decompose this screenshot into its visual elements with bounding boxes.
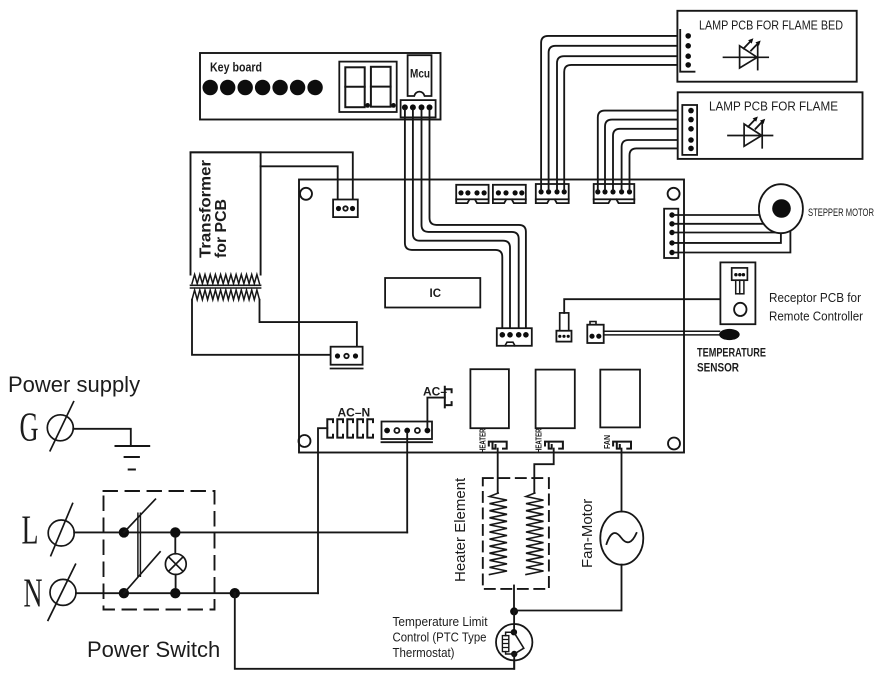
svg-text:Transformer: Transformer [198, 160, 215, 258]
wire junction to thermostat [513, 611, 515, 632]
svg-text:Temperature Limit: Temperature Limit [393, 614, 488, 629]
receptor plug housing [560, 313, 569, 331]
wire transformer primary to J2 pin1 [261, 166, 338, 200]
transformer core [191, 284, 261, 286]
wire thermostat to bottom [513, 654, 515, 669]
connector J7 (to flame lamp PCB) [594, 184, 635, 199]
connector J2 (PCB top-left, to transformer) [333, 200, 358, 218]
flame connector header [682, 105, 697, 155]
wire J7 pin1 to flame lamp [598, 111, 686, 190]
wire J7 pin4 to flame lamp [622, 140, 686, 190]
MCU U1 [408, 55, 432, 96]
LED D2 (flame) [728, 117, 773, 148]
wire J8 pin3 to stepper [674, 232, 776, 234]
power switch dashed enclosure [104, 491, 215, 610]
display digit 1 [345, 67, 364, 107]
wire J8 pin5 to stepper [674, 230, 790, 253]
lamp PCB for flame bed [677, 11, 856, 82]
wire transformer secondary left to J3 [192, 300, 332, 355]
wire lamp vertical [174, 538, 176, 588]
wire J8 pin1 to stepper [674, 214, 760, 216]
lamp PCB for flame [678, 92, 863, 159]
relay K2 (heater 2) [536, 370, 575, 429]
svg-text:LAMP PCB FOR FLAME BED: LAMP PCB FOR FLAME BED [699, 19, 843, 33]
AC-P terminal lug [445, 387, 452, 408]
7-segment display module [339, 62, 396, 112]
earth ground [116, 446, 150, 470]
wire N to AC-N [76, 592, 318, 594]
temperature sensor [719, 329, 740, 340]
stepper motor M1 [759, 184, 803, 233]
wire heater box to junction [513, 586, 515, 612]
svg-text:Key board: Key board [210, 60, 262, 75]
mounting hole top-left [300, 188, 312, 200]
svg-text:SENSOR: SENSOR [697, 363, 740, 375]
receptor lens [734, 303, 746, 316]
connector J6 (to flame-bed lamp PCB) [536, 184, 569, 199]
switch contact dots [119, 527, 129, 537]
wire transformer secondary right to J3 [260, 300, 357, 347]
svg-text:AC–N: AC–N [338, 406, 371, 420]
svg-text:TEMPERATURE: TEMPERATURE [697, 348, 766, 360]
mounting hole bottom-right [668, 438, 680, 450]
wire J7 pin2 to flame lamp [605, 120, 686, 190]
svg-text:N: N [24, 570, 43, 615]
heater2 terminal bracket [545, 442, 563, 449]
indicator lamp [165, 554, 186, 575]
wire J6 pin4 to flame-bed lamp [564, 65, 685, 190]
heater1 terminal bracket [489, 442, 507, 449]
MCU connector J1 [401, 100, 436, 117]
wire J7 pin3 to flame lamp [613, 129, 686, 190]
wire MCU pin2 to J5 pin2 [413, 110, 510, 330]
connector J8 (right edge, to stepper motor) [664, 209, 678, 258]
connector J4a (spare, top row) [456, 185, 488, 200]
heater element dashed box [483, 478, 549, 589]
svg-text:LAMP PCB FOR FLAME: LAMP PCB FOR FLAME [709, 100, 838, 114]
wire MCU pin1 to J5 pin1 [405, 110, 502, 330]
svg-text:HEATER: HEATER [479, 428, 488, 453]
AC-N terminal lugs [327, 419, 373, 437]
flame-bed pin header bracket [680, 30, 694, 72]
connector J3 (PCB left, to transformer secondary) [331, 347, 363, 365]
wire transformer primary to J2 pin3 [191, 152, 353, 200]
wire AC-P lug to J11 pin5 [427, 398, 444, 428]
heater coil 1 [490, 493, 508, 575]
heater coil 2 [526, 493, 544, 575]
fan motor M2 [600, 511, 643, 564]
svg-text:L: L [22, 507, 39, 552]
connector J4b (spare, top row) [493, 185, 526, 200]
display digit 2 [371, 67, 391, 107]
relay K3 (fan) [600, 370, 640, 428]
svg-text:Mcu: Mcu [410, 67, 430, 81]
wire J11 pin3 to power switch L [406, 433, 408, 532]
wire relay K1 to heater coil 1 [497, 449, 499, 493]
main control PCB [299, 180, 684, 453]
wire relay K3 to fan motor [621, 449, 623, 512]
fan terminal bracket [613, 442, 631, 449]
switch arm upper [124, 499, 155, 532]
wire AC-N to power switch N [318, 428, 327, 593]
mounting hole bottom-left [299, 435, 311, 447]
wire J6 pin3 to flame-bed lamp [557, 56, 685, 190]
connector J5 (mid PCB, from MCU) [497, 328, 532, 346]
svg-text:G: G [20, 404, 39, 449]
connector J9 (3-pin, receptor) [556, 331, 571, 342]
wire J6 pin1 to flame-bed lamp [541, 36, 685, 190]
junction dot N line [230, 588, 240, 598]
wire fan motor to junction [514, 565, 621, 611]
transformer T1 [191, 152, 261, 274]
wire J6 pin2 to flame-bed lamp [549, 46, 685, 190]
transformer secondary winding [192, 290, 260, 300]
wire J8 pin4 to stepper [674, 232, 781, 243]
connector J11 (5-pin bottom, AC input) [382, 422, 433, 440]
svg-text:AC–: AC– [423, 385, 447, 399]
wire relay K2 to heater coil 2 [534, 449, 553, 493]
svg-text:Thermostat): Thermostat) [393, 645, 455, 660]
PTC element [502, 636, 508, 652]
wire J8 pin2 to stepper [674, 223, 764, 225]
svg-text:Fan-Motor: Fan-Motor [579, 499, 596, 568]
wire pair J10 to temperature sensor [604, 331, 720, 335]
IR receiver body [732, 268, 748, 280]
wire MCU pin3 to J5 pin3 [422, 110, 519, 330]
switch arm lower [124, 552, 160, 593]
wire G to earth [73, 429, 131, 446]
wire L to J11 pin3 [74, 531, 407, 533]
wire MCU pin4 to J5 pin4 [430, 110, 526, 330]
keyboard PCB box [200, 53, 441, 120]
thermostat TH1 [496, 624, 532, 660]
junction dot heater/fan/thermostat [510, 607, 518, 615]
svg-text:for PCB: for PCB [213, 199, 230, 258]
IR receiver legs [736, 280, 744, 294]
wire J7 pin5 to flame lamp [630, 148, 687, 190]
svg-text:Power Switch: Power Switch [87, 637, 220, 662]
svg-text:Power supply: Power supply [8, 372, 140, 397]
svg-text:Control (PTC Type: Control (PTC Type [393, 630, 487, 645]
wire N junction to thermostat [235, 593, 514, 669]
svg-text:HEATER: HEATER [535, 428, 544, 453]
connector J10 (2-pin, temperature sensor) [587, 325, 603, 343]
thermostat arm [514, 632, 524, 654]
IC U2 [385, 278, 480, 308]
receptor PCB box [720, 262, 755, 324]
LED D1 (flame bed) [724, 38, 769, 69]
flame-bed pins [685, 33, 691, 68]
switch mechanical link [138, 513, 141, 576]
svg-text:Receptor PCB for: Receptor PCB for [769, 290, 862, 305]
svg-text:IC: IC [430, 288, 442, 300]
relay K1 (heater 1) [470, 369, 509, 428]
wire J9 to receptor PCB [564, 294, 739, 313]
keyboard buttons S1-S7 [203, 80, 323, 95]
mounting hole top-right [668, 188, 680, 200]
svg-text:FAN: FAN [603, 435, 612, 449]
svg-text:Heater Element: Heater Element [452, 477, 469, 582]
transformer primary winding [192, 275, 260, 284]
svg-text:STEPPER MOTOR: STEPPER MOTOR [808, 207, 874, 219]
svg-text:Remote Controller: Remote Controller [769, 309, 864, 324]
